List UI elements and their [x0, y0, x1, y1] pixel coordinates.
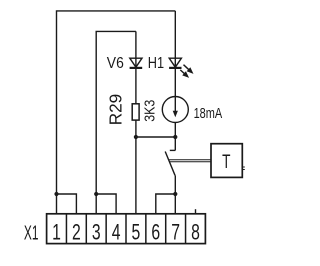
svg-text:X1: X1: [24, 222, 39, 245]
svg-text:3K3: 3K3: [143, 100, 159, 122]
svg-text:1: 1: [52, 220, 61, 245]
svg-text:18mA: 18mA: [194, 106, 223, 122]
svg-text:T: T: [222, 151, 230, 173]
svg-text:3: 3: [92, 220, 101, 245]
svg-text:4: 4: [112, 220, 121, 245]
svg-text:2: 2: [72, 220, 81, 245]
svg-text:V6: V6: [107, 55, 124, 72]
svg-text:7: 7: [171, 220, 180, 245]
svg-text:5: 5: [132, 220, 141, 245]
svg-text:8: 8: [191, 220, 200, 245]
svg-text:6: 6: [151, 220, 160, 245]
svg-text:R29: R29: [105, 94, 125, 126]
svg-text:H1: H1: [148, 55, 164, 72]
